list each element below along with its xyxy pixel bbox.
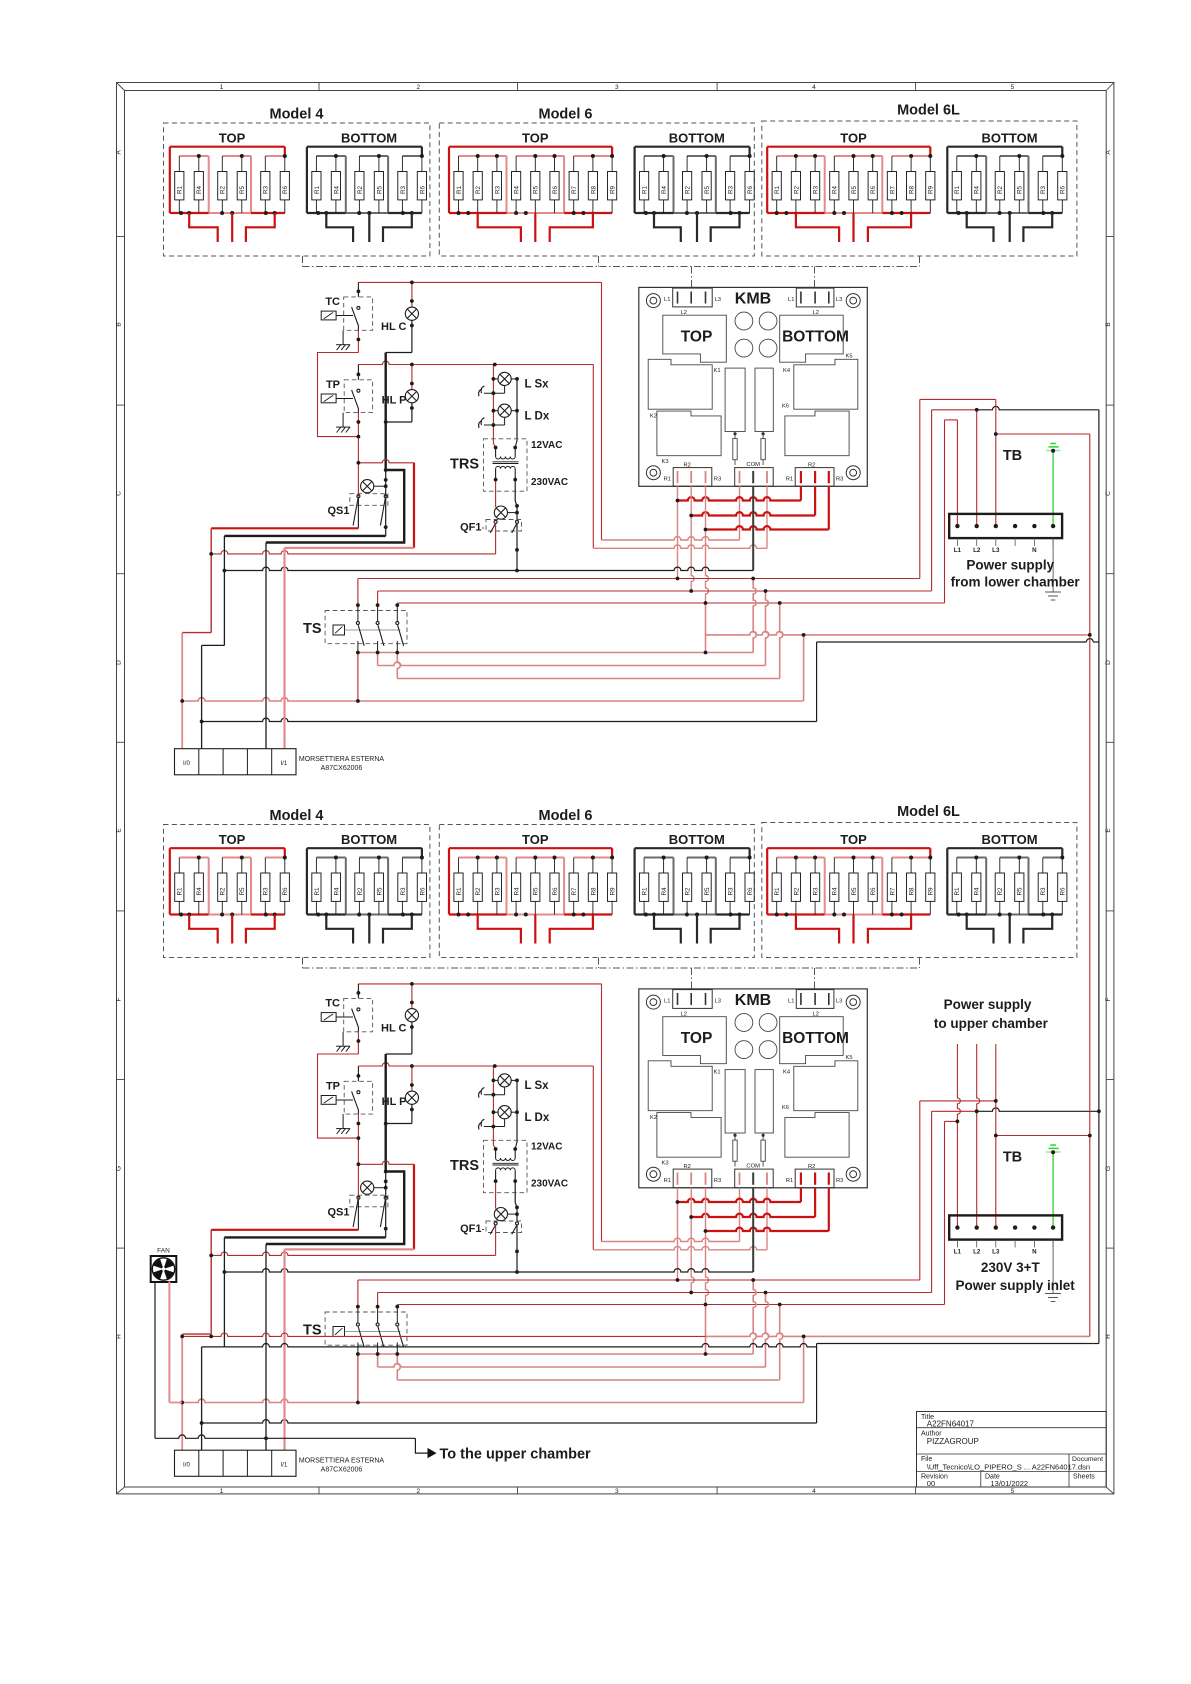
svg-text:E: E xyxy=(1105,828,1112,833)
svg-text:Power supply: Power supply xyxy=(966,558,1054,573)
svg-text:Sheets: Sheets xyxy=(1073,1474,1095,1481)
svg-text:L3: L3 xyxy=(715,297,721,303)
svg-text:\Uff_Tecnico\LO_PIPERO_S ... A: \Uff_Tecnico\LO_PIPERO_S ... A22FN64017.… xyxy=(927,1463,1090,1472)
svg-text:230VAC: 230VAC xyxy=(531,477,568,488)
svg-text:C: C xyxy=(1105,491,1112,496)
svg-text:F: F xyxy=(116,997,123,1001)
svg-text:1: 1 xyxy=(220,1488,224,1495)
svg-text:A: A xyxy=(1105,150,1112,155)
svg-text:L Sx: L Sx xyxy=(525,379,550,391)
svg-text:TB: TB xyxy=(1003,448,1022,464)
svg-text:H: H xyxy=(1105,1334,1112,1339)
svg-text:00: 00 xyxy=(927,1479,935,1488)
svg-text:L1: L1 xyxy=(664,297,670,303)
svg-text:TOP: TOP xyxy=(840,131,867,146)
svg-text:13/01/2022: 13/01/2022 xyxy=(991,1479,1029,1488)
svg-text:230V 3+T: 230V 3+T xyxy=(981,1260,1041,1275)
svg-text:MORSETTIERA ESTERNA: MORSETTIERA ESTERNA xyxy=(299,756,385,763)
svg-text:I/0: I/0 xyxy=(183,760,190,767)
svg-text:KMB: KMB xyxy=(735,291,771,308)
svg-text:BOTTOM: BOTTOM xyxy=(341,131,397,146)
svg-text:from lower chamber: from lower chamber xyxy=(951,575,1081,590)
svg-text:TOP: TOP xyxy=(219,131,246,146)
svg-text:L3: L3 xyxy=(836,297,842,303)
svg-text:Model 4: Model 4 xyxy=(270,107,324,123)
svg-text:A87CX62006: A87CX62006 xyxy=(321,765,363,772)
svg-text:TRS: TRS xyxy=(450,457,479,473)
svg-text:K4: K4 xyxy=(783,368,791,374)
svg-text:TP: TP xyxy=(326,379,340,391)
svg-text:4: 4 xyxy=(812,84,816,91)
svg-text:BOTTOM: BOTTOM xyxy=(981,131,1037,146)
svg-text:Power supply inlet: Power supply inlet xyxy=(955,1278,1075,1293)
svg-text:3: 3 xyxy=(615,1488,619,1495)
svg-text:TS: TS xyxy=(303,621,322,637)
svg-text:G: G xyxy=(116,1166,123,1171)
svg-text:L3: L3 xyxy=(992,547,1000,554)
svg-text:Model 6: Model 6 xyxy=(539,107,593,123)
svg-text:R2: R2 xyxy=(684,463,691,469)
svg-text:A22FN64017: A22FN64017 xyxy=(927,1420,975,1429)
svg-text:BOTTOM: BOTTOM xyxy=(782,329,849,346)
svg-text:4: 4 xyxy=(812,1488,816,1495)
svg-text:B: B xyxy=(1105,322,1112,326)
svg-text:C: C xyxy=(116,491,123,496)
svg-text:F: F xyxy=(1105,997,1112,1001)
svg-text:A: A xyxy=(116,150,123,155)
svg-text:R1: R1 xyxy=(664,477,671,483)
svg-text:I/1: I/1 xyxy=(280,760,287,767)
svg-text:D: D xyxy=(1105,660,1112,665)
svg-text:12VAC: 12VAC xyxy=(531,440,563,451)
svg-text:TC: TC xyxy=(325,296,340,308)
svg-text:K1: K1 xyxy=(714,368,721,374)
svg-text:L2: L2 xyxy=(973,547,981,554)
svg-text:QS1: QS1 xyxy=(327,505,349,517)
svg-text:FAN: FAN xyxy=(157,1248,170,1255)
svg-text:L Dx: L Dx xyxy=(525,410,550,422)
svg-text:TOP: TOP xyxy=(522,131,549,146)
svg-text:1: 1 xyxy=(220,84,224,91)
svg-text:L1: L1 xyxy=(954,547,962,554)
svg-text:D: D xyxy=(116,660,123,665)
svg-text:2: 2 xyxy=(416,84,420,91)
svg-text:HL P: HL P xyxy=(382,395,407,407)
svg-text:H: H xyxy=(116,1334,123,1339)
svg-text:Model 6L: Model 6L xyxy=(897,103,960,119)
svg-text:R3: R3 xyxy=(836,477,843,483)
svg-text:Document: Document xyxy=(1072,1456,1103,1463)
svg-text:COM: COM xyxy=(746,462,760,468)
svg-text:HL C: HL C xyxy=(381,321,407,333)
svg-text:K6: K6 xyxy=(782,404,789,410)
svg-text:To the upper chamber: To the upper chamber xyxy=(440,1447,592,1463)
svg-text:R1: R1 xyxy=(786,477,793,483)
svg-text:BOTTOM: BOTTOM xyxy=(669,131,725,146)
svg-text:Power supply: Power supply xyxy=(944,997,1032,1012)
svg-text:R2: R2 xyxy=(808,463,815,469)
svg-text:E: E xyxy=(116,828,123,833)
svg-text:R3: R3 xyxy=(714,477,721,483)
svg-text:N: N xyxy=(1032,547,1037,554)
svg-text:K5: K5 xyxy=(846,354,853,360)
svg-text:2: 2 xyxy=(416,1488,420,1495)
svg-text:to upper chamber: to upper chamber xyxy=(934,1016,1049,1031)
svg-text:TOP: TOP xyxy=(681,329,713,346)
svg-text:QF1: QF1 xyxy=(460,522,481,534)
svg-text:5: 5 xyxy=(1011,84,1015,91)
svg-text:K3: K3 xyxy=(662,459,669,465)
svg-text:PIZZAGROUP: PIZZAGROUP xyxy=(927,1437,979,1446)
svg-text:5: 5 xyxy=(1011,1488,1015,1495)
svg-text:3: 3 xyxy=(615,84,619,91)
svg-text:G: G xyxy=(1105,1166,1112,1171)
svg-text:L1: L1 xyxy=(788,297,794,303)
svg-text:B: B xyxy=(116,322,123,326)
svg-text:K2: K2 xyxy=(650,413,657,419)
